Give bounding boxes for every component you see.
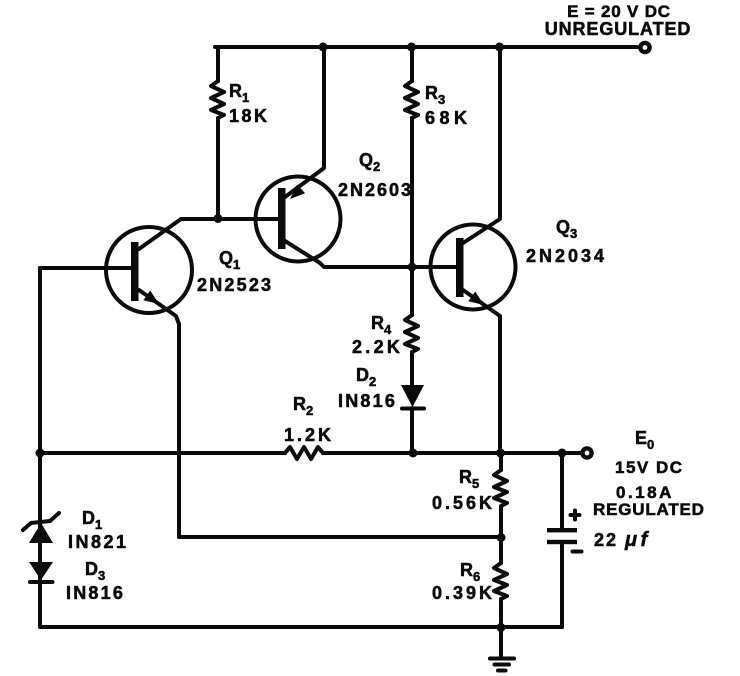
wire R4 to D2 [410,352,414,386]
capacitor C1 bottom plate [547,540,577,544]
arrow Q3 emitter [468,292,484,306]
transistor Q3 [431,225,516,310]
arrow Q2 emitter [290,185,305,200]
transistor Q2 base bar [278,188,286,249]
wire R5 R6 branch [499,453,503,470]
wire Q1 emitter [139,290,179,537]
capacitor C1 bottom lead [560,544,564,627]
diode D1 (zener, triangle up) [29,523,53,543]
svg-text:REGULATED: REGULATED [593,500,705,519]
wire left rail [38,268,42,627]
ground bar 2 [495,663,510,667]
wire R5 to R6 [499,506,503,563]
node junction capacitor / output wire [558,449,567,458]
node junction Q2 emitter / top rail [319,43,328,52]
svg-text:2N2034: 2N2034 [526,246,607,266]
wire R6 to bottom rail [499,599,503,627]
node junction Q3 collector / top rail [495,43,504,52]
wire Q2 collector to Q3 base [285,241,456,267]
wire D2 to output rail [410,408,414,453]
svg-text:2N2603: 2N2603 [338,180,413,200]
resistor R3 [405,81,418,118]
svg-text:2N2523: 2N2523 [197,275,273,295]
svg-text:0.39K: 0.39K [432,583,495,603]
wire top rail [215,45,637,49]
svg-text:UNREGULATED: UNREGULATED [545,19,692,39]
svg-text:15V DC: 15V DC [615,458,684,477]
svg-text:18K: 18K [229,106,270,126]
resistor R4 [405,315,418,352]
diode D3 (triangle down) [29,562,53,580]
wire bottom rail [40,625,562,629]
ground bar 1 [490,657,514,661]
resistor R5 [494,470,507,506]
wire output rail left (R2 wire) [40,451,285,455]
terminal output E0 [582,448,591,457]
wire R3 R4 D2 branch [410,47,414,81]
wire output rail right [323,451,581,455]
node junction R3 / top rail [407,43,416,52]
wire R1 branch top [216,47,220,81]
transistor Q3 base bar [456,238,464,297]
label - (capacitor polarity) [573,550,582,554]
node junction Q3 emitter / output wire [496,449,505,458]
wire R1 bottom [216,118,220,219]
svg-text:0.56K: 0.56K [432,493,495,513]
capacitor C1 top lead [560,453,564,528]
terminal input (E = 20 V DC) [640,43,649,52]
arrow Q1 emitter [143,291,159,305]
wire Q1 emitter to divider tap [179,535,501,539]
svg-text:IN816: IN816 [338,391,397,411]
node junction Q2 collector wire / R4 [408,263,417,272]
label + (capacitor polarity) [571,511,580,520]
diode D2 cathode bar [402,407,424,411]
node junction R1/Q1-collector/Q2-base [214,214,223,223]
wire Q3 emitter [463,290,500,453]
wire R3 bottom to node [410,118,414,315]
svg-text:2.2K: 2.2K [352,337,403,357]
resistor R1 [211,81,224,118]
resistor R6 [494,563,507,599]
capacitor C1 top plate [547,528,577,532]
svg-text:IN816: IN816 [66,583,125,603]
wire Q2 emitter riser [285,47,324,197]
node junction left rail / output wire [36,449,45,458]
svg-text:IN821: IN821 [68,532,129,552]
svg-text:68K: 68K [425,108,472,128]
node junction R5/R6 divider tap [497,533,506,542]
ground [499,627,503,657]
node junction ground / bottom rail [497,623,506,632]
transistor Q2 [256,177,341,262]
wire Q1 collector to Q2 base [139,219,278,249]
diode D1 zener bar [23,513,59,530]
diode D3 cathode bar [30,580,53,584]
wire Q1 base [40,266,131,270]
svg-text:1.2K: 1.2K [284,425,334,445]
transistor Q1 base bar [131,242,139,301]
resistor R2 [285,447,323,459]
ground bar 3 [498,669,506,673]
diode D2 [401,385,424,407]
node junction D2 / output wire [409,449,418,458]
transistor Q1 [106,227,192,313]
wire Q3 collector riser [463,47,500,243]
